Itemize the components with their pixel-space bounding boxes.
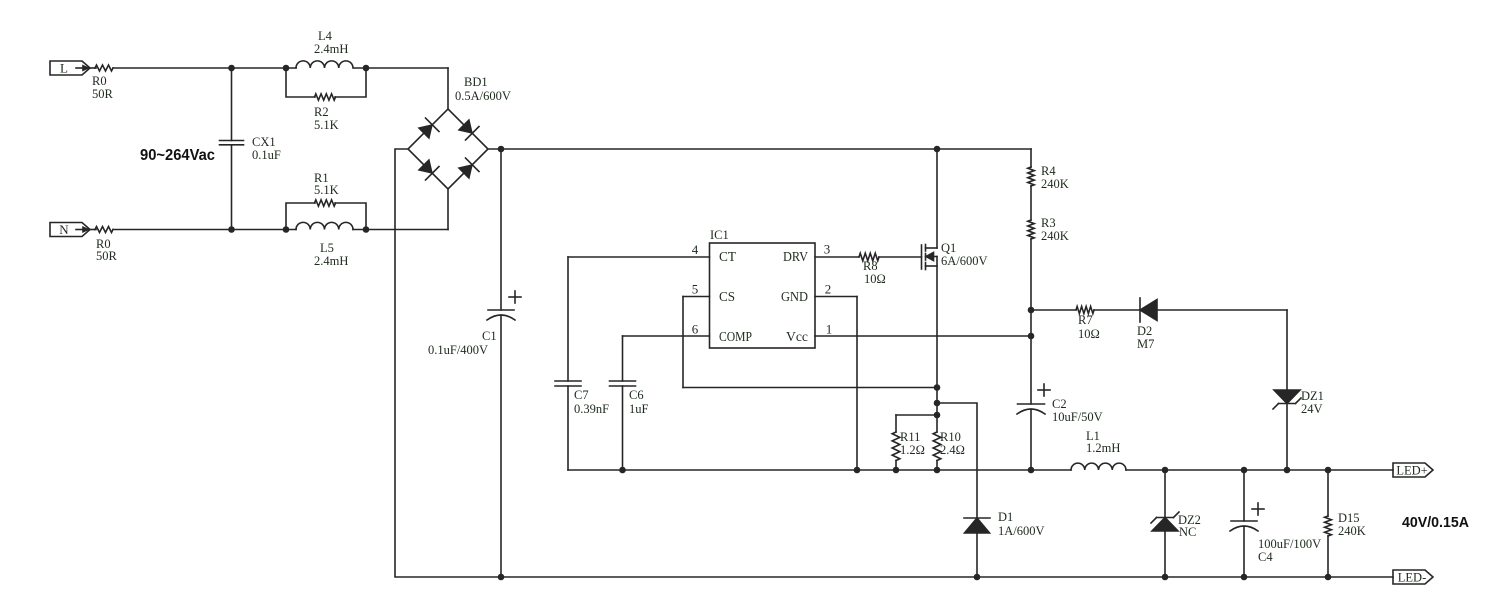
svg-text:C1: C1 [482, 329, 497, 343]
svg-text:1uF: 1uF [629, 402, 649, 416]
svg-text:2.4mH: 2.4mH [314, 42, 348, 56]
svg-text:1.2Ω: 1.2Ω [900, 443, 925, 457]
svg-text:R8: R8 [863, 259, 878, 273]
svg-text:Q1: Q1 [941, 241, 956, 255]
svg-text:240K: 240K [1338, 524, 1366, 538]
svg-text:2: 2 [825, 282, 832, 297]
svg-text:10uF/50V: 10uF/50V [1052, 410, 1103, 424]
svg-text:CX1: CX1 [252, 135, 276, 149]
svg-text:Vcc: Vcc [786, 330, 808, 345]
svg-text:CS: CS [719, 290, 735, 305]
svg-text:5.1K: 5.1K [314, 118, 339, 132]
svg-text:6A/600V: 6A/600V [941, 254, 988, 268]
svg-text:24V: 24V [1301, 402, 1323, 416]
svg-text:C7: C7 [574, 388, 589, 402]
svg-text:CT: CT [719, 250, 736, 265]
svg-text:1.2mH: 1.2mH [1086, 441, 1120, 455]
svg-text:50R: 50R [96, 249, 118, 263]
svg-text:2.4mH: 2.4mH [314, 254, 348, 268]
svg-text:0.1uF: 0.1uF [252, 148, 281, 162]
svg-text:R11: R11 [900, 430, 920, 444]
svg-text:R7: R7 [1078, 313, 1093, 327]
svg-text:3: 3 [824, 242, 831, 257]
svg-text:90~264Vac: 90~264Vac [140, 147, 215, 164]
svg-text:D2: D2 [1137, 324, 1152, 338]
svg-text:D1: D1 [998, 510, 1013, 524]
svg-text:R3: R3 [1041, 216, 1056, 230]
svg-text:NC: NC [1179, 525, 1196, 539]
svg-text:4: 4 [692, 242, 699, 257]
svg-text:IC1: IC1 [710, 228, 729, 242]
svg-text:L4: L4 [318, 29, 333, 43]
svg-text:C2: C2 [1052, 397, 1067, 411]
svg-text:COMP: COMP [719, 330, 752, 345]
svg-text:1A/600V: 1A/600V [998, 524, 1045, 538]
svg-text:240K: 240K [1041, 177, 1069, 191]
svg-text:R4: R4 [1041, 164, 1056, 178]
svg-text:DZ1: DZ1 [1301, 389, 1324, 403]
svg-text:LED+: LED+ [1396, 464, 1427, 478]
svg-text:5: 5 [692, 282, 699, 297]
svg-text:6: 6 [692, 322, 699, 337]
svg-text:0.1uF/400V: 0.1uF/400V [428, 343, 488, 357]
svg-text:10Ω: 10Ω [864, 272, 886, 286]
svg-text:240K: 240K [1041, 229, 1069, 243]
svg-text:R10: R10 [940, 430, 961, 444]
svg-text:C6: C6 [629, 388, 644, 402]
svg-text:C4: C4 [1258, 550, 1273, 564]
svg-text:BD1: BD1 [464, 75, 488, 89]
svg-text:D15: D15 [1338, 511, 1360, 525]
svg-text:L: L [60, 61, 68, 76]
svg-text:50R: 50R [92, 87, 114, 101]
svg-text:N: N [59, 222, 69, 237]
svg-text:10Ω: 10Ω [1078, 327, 1100, 341]
svg-text:DRV: DRV [783, 250, 808, 265]
svg-text:GND: GND [781, 290, 808, 305]
svg-text:5.1K: 5.1K [314, 183, 339, 197]
svg-text:0.5A/600V: 0.5A/600V [455, 89, 511, 103]
svg-text:0.39nF: 0.39nF [574, 402, 609, 416]
svg-text:LED-: LED- [1398, 571, 1426, 585]
svg-text:40V/0.15A: 40V/0.15A [1402, 514, 1469, 531]
svg-text:100uF/100V: 100uF/100V [1258, 537, 1321, 551]
svg-text:R0: R0 [92, 74, 107, 88]
svg-text:L5: L5 [320, 241, 334, 255]
svg-text:1: 1 [826, 322, 833, 337]
svg-text:R2: R2 [314, 105, 329, 119]
svg-text:M7: M7 [1137, 337, 1154, 351]
svg-text:2.4Ω: 2.4Ω [940, 443, 965, 457]
